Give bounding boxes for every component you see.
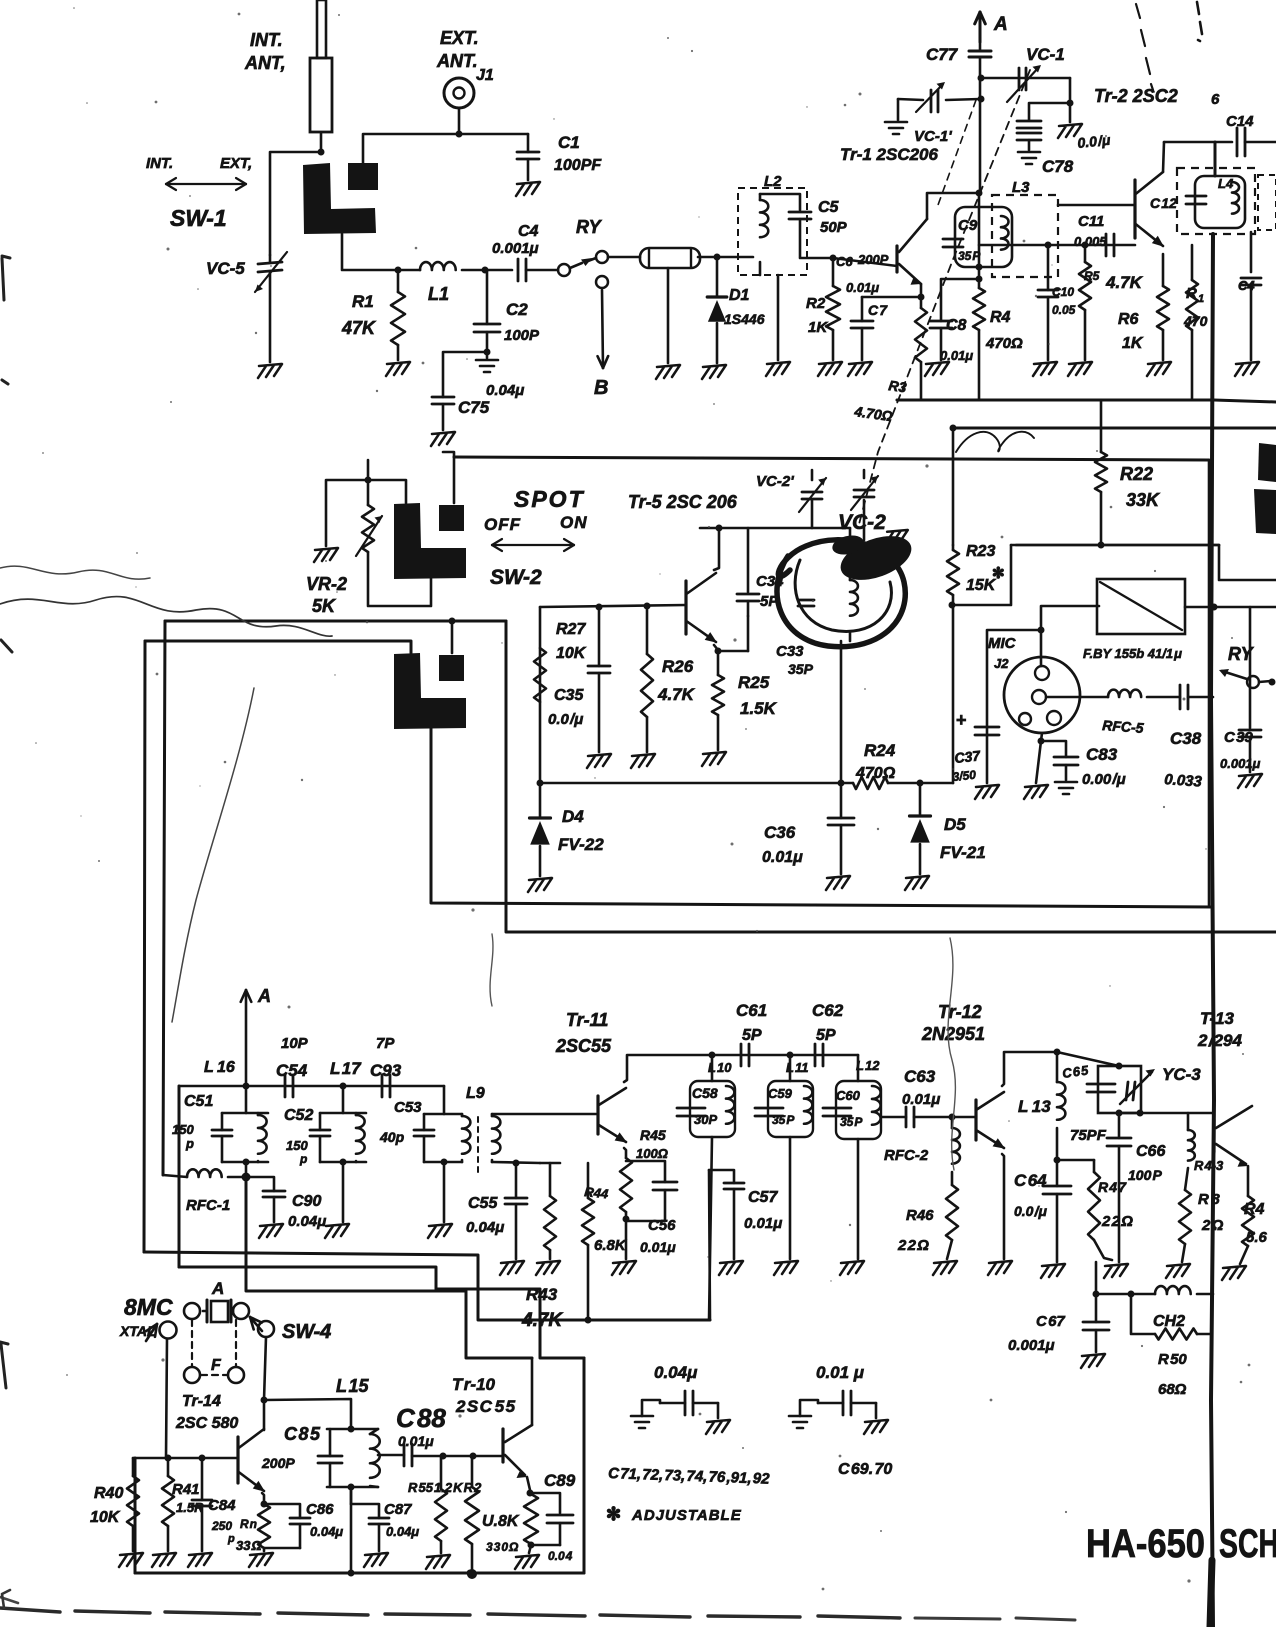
- svg-text:0.01μ: 0.01μ: [640, 1239, 676, 1255]
- svg-text:U.8K: U.8K: [482, 1513, 520, 1530]
- resistor R26: [646, 606, 649, 654]
- svg-text:J2: J2: [994, 656, 1009, 671]
- capacitor C57: [709, 1170, 734, 1183]
- svg-text:0.04μ: 0.04μ: [466, 1219, 504, 1236]
- ground R55: [426, 1555, 450, 1569]
- svg-text:C54: C54: [276, 1061, 308, 1080]
- capacitor C88: [403, 1444, 406, 1466]
- wire C88 to Tr-10 base: [412, 1455, 503, 1458]
- ground C57: [719, 1261, 743, 1275]
- svg-text:R 4 7: R 4 7: [1098, 1179, 1127, 1195]
- wire collector rail: [700, 527, 850, 530]
- svg-text:C86: C86: [306, 1501, 334, 1518]
- ground R1: [386, 362, 410, 376]
- wire to VC-1: [980, 77, 1070, 80]
- wire tank bottom down: [840, 641, 843, 783]
- wire R3 bus jog: [896, 399, 899, 402]
- svg-text:p: p: [299, 1152, 307, 1166]
- ground R2: [818, 362, 842, 376]
- svg-text:SW-1: SW-1: [170, 205, 227, 231]
- svg-text:100PF: 100PF: [554, 157, 602, 174]
- svg-text:C 39: C 39: [1224, 729, 1253, 746]
- svg-text:R22: R22: [1120, 464, 1153, 484]
- svg-text:C83: C83: [1086, 745, 1118, 764]
- svg-text:MIC: MIC: [988, 635, 1017, 652]
- svg-text:R6: R6: [1118, 311, 1139, 328]
- svg-text:R4: R4: [990, 309, 1011, 326]
- ground L2: [766, 362, 790, 376]
- relay contact mid: [1247, 676, 1259, 688]
- svg-text:OFF: OFF: [484, 515, 521, 534]
- resistor R23: [952, 545, 955, 550]
- tank C65/VC-3 box: [1098, 1066, 1141, 1113]
- transistor Tr-12: [974, 1100, 977, 1140]
- svg-text:R n: R n: [240, 1517, 257, 1531]
- svg-text:Tr-14: Tr-14: [182, 1393, 221, 1410]
- svg-text:C78: C78: [1042, 157, 1074, 176]
- svg-text:VC-1': VC-1': [914, 128, 952, 145]
- wire oscillator box right edge: [1208, 460, 1211, 905]
- svg-text:R45: R45: [640, 1127, 666, 1143]
- svg-text:8MC: 8MC: [124, 1294, 173, 1320]
- torn bottom edge: [0, 1608, 900, 1618]
- ground C8: [925, 362, 949, 376]
- ground C89: [515, 1555, 539, 1569]
- capacitor C36: [840, 783, 843, 818]
- svg-text:C87: C87: [384, 1501, 412, 1518]
- wire XTAL left to bias rail: [166, 1339, 167, 1458]
- svg-text:L3: L3: [1012, 179, 1030, 196]
- wire bias rail: [133, 1457, 238, 1460]
- wire emitter node: [714, 645, 718, 650]
- svg-text:L 13: L 13: [1018, 1097, 1051, 1116]
- tank 2 C52/L17: [342, 1086, 345, 1113]
- ground Tr-13: [1222, 1266, 1246, 1280]
- svg-text:33K: 33K: [1126, 490, 1161, 510]
- svg-text:C2: C2: [506, 300, 528, 319]
- oscillator tank C9 box: [955, 207, 1012, 267]
- svg-text:C59: C59: [768, 1086, 793, 1101]
- svg-text:470Ω: 470Ω: [985, 335, 1023, 352]
- capacitor C56: [626, 1161, 665, 1182]
- wire tank L10 bottom: [709, 1137, 712, 1320]
- wire R45 to ground: [625, 1219, 628, 1259]
- svg-text:C66: C66: [1136, 1143, 1165, 1160]
- resistor R47: [1093, 1160, 1096, 1172]
- svg-text:INT.: INT.: [250, 30, 283, 50]
- svg-text:Tr-12: Tr-12: [938, 1002, 982, 1022]
- ground C67: [1081, 1354, 1105, 1368]
- svg-text:VC-2: VC-2: [838, 511, 886, 534]
- inductor L4 winding: [1214, 142, 1217, 176]
- svg-text:2 /294: 2 /294: [1197, 1031, 1243, 1050]
- wire staircase bus 2 box bottom: [179, 1267, 584, 1358]
- capacitor C9: [943, 238, 963, 241]
- svg-text:A: A: [993, 14, 1008, 35]
- variable capacitor VC-5: [269, 255, 272, 262]
- wire L9 secondary top to Tr-11: [492, 1113, 596, 1116]
- ground C83 earth: [1055, 782, 1077, 794]
- svg-text:35 P: 35 P: [772, 1113, 795, 1127]
- svg-text:C11: C11: [1078, 213, 1104, 230]
- ground C10: [1033, 362, 1057, 376]
- svg-text:5P: 5P: [742, 1027, 762, 1044]
- resistor R49: [1242, 1196, 1254, 1246]
- svg-text:p: p: [185, 1136, 194, 1151]
- ground tank2: [325, 1224, 349, 1238]
- wire Tr-11 emitter: [624, 1148, 626, 1158]
- svg-text:0.005: 0.005: [1074, 234, 1107, 249]
- svg-text:C 64: C 64: [1014, 1171, 1047, 1190]
- transformer L4 dashed box: [1177, 168, 1255, 234]
- svg-text:C77: C77: [926, 45, 959, 64]
- tank L12/C60: [857, 1055, 860, 1081]
- svg-text:10P: 10P: [281, 1035, 309, 1052]
- ground R40: [119, 1553, 143, 1567]
- svg-text:1.5K: 1.5K: [740, 699, 778, 718]
- svg-text:C51: C51: [184, 1093, 213, 1110]
- capacitor C13: [1186, 195, 1206, 198]
- svg-text:0.04μ: 0.04μ: [310, 1524, 343, 1539]
- resistor R45: [620, 1158, 632, 1212]
- resistor R40: [132, 1458, 135, 1476]
- svg-text:INT.: INT.: [146, 155, 173, 172]
- svg-text:R40: R40: [94, 1485, 123, 1502]
- paper speckles: [415, 247, 418, 250]
- svg-text:R26: R26: [662, 657, 694, 676]
- ground filter: [656, 365, 680, 379]
- svg-text:100Ω: 100Ω: [636, 1146, 668, 1161]
- capacitor C93: [381, 1075, 384, 1097]
- wire SW-1 to R1 node: [342, 234, 398, 270]
- ground C84: [188, 1553, 212, 1567]
- svg-text:C56: C56: [648, 1217, 676, 1234]
- svg-text:VC-2': VC-2': [756, 473, 794, 490]
- capacitor C11: [1105, 234, 1108, 256]
- svg-text:C 12: C 12: [1150, 195, 1177, 211]
- svg-text:L1: L1: [428, 284, 449, 304]
- capacitor C54: [284, 1075, 287, 1097]
- wire Tr-12 collector bus: [1002, 1052, 1057, 1086]
- transistor Tr-14: [236, 1437, 239, 1483]
- capacitor C63: [905, 1107, 908, 1127]
- connector J1: [444, 78, 474, 108]
- svg-text:R44: R44: [584, 1184, 610, 1201]
- capacitor C75: [432, 396, 454, 399]
- svg-text:L 12: L 12: [856, 1058, 880, 1073]
- svg-text:C4: C4: [1238, 278, 1255, 293]
- relay coil box: [1097, 579, 1185, 634]
- wire R44 down: [587, 1245, 590, 1320]
- ground C35: [587, 754, 611, 768]
- ground C1: [516, 182, 540, 196]
- wire rail left leg: [539, 607, 542, 783]
- wire L12 to C63: [881, 1116, 906, 1119]
- wire base line Tr-13: [1119, 1112, 1213, 1115]
- svg-text:C4: C4: [518, 223, 539, 240]
- svg-text:EXT.: EXT.: [440, 28, 479, 48]
- wire bus corner to R23: [952, 545, 1011, 605]
- ground C78 earth: [1018, 152, 1040, 164]
- ground C90: [259, 1224, 283, 1238]
- svg-text:C36: C36: [764, 823, 796, 842]
- resistor R11: [1191, 245, 1194, 280]
- resistor R48: [1179, 1190, 1191, 1244]
- arrow node A lower: [245, 990, 248, 1086]
- svg-text:SW-4: SW-4: [282, 1321, 331, 1343]
- ground C64: [1041, 1264, 1065, 1278]
- tank L11/C59: [789, 1055, 792, 1081]
- svg-text:C1: C1: [558, 133, 580, 152]
- svg-text:YC-3: YC-3: [1162, 1065, 1201, 1084]
- svg-text:4.7K: 4.7K: [1105, 273, 1144, 292]
- svg-text:250: 250: [211, 1519, 232, 1533]
- ground C37: [975, 785, 999, 799]
- tank L10/C58: [711, 1055, 714, 1081]
- tank 1 C51/L16: [245, 1086, 248, 1113]
- svg-text:C89: C89: [544, 1471, 576, 1490]
- svg-text:C57: C57: [748, 1189, 778, 1206]
- inductor L15: [370, 1429, 378, 1434]
- svg-text:35 P: 35 P: [840, 1115, 863, 1129]
- wire to C75: [443, 352, 487, 397]
- transistor Tr-5: [684, 581, 687, 634]
- variable capacitor VC-2: [851, 476, 878, 510]
- capacitor C64: [1056, 1160, 1059, 1186]
- svg-text:R 4-3: R 4-3: [1194, 1158, 1224, 1173]
- svg-text:C55: C55: [468, 1195, 498, 1212]
- capacitor C87: [369, 1517, 389, 1520]
- svg-text:CH2: CH2: [1153, 1313, 1185, 1330]
- wire C55 node to resistors: [540, 1162, 560, 1165]
- resistor R1: [397, 270, 400, 292]
- svg-text:200P: 200P: [261, 1455, 295, 1471]
- svg-text:C 7: C 7: [868, 302, 888, 318]
- scribble crossed area: [956, 432, 1034, 452]
- transformer core dashed: [477, 1117, 479, 1172]
- capacitor C61: [740, 1044, 743, 1066]
- ground R42: [249, 1553, 273, 1567]
- wire VR-2 bottom to SW-2: [368, 552, 431, 606]
- resistor R43: [549, 1163, 552, 1196]
- resistor R4: [978, 279, 981, 288]
- wire A bus down to C9 tank: [979, 192, 980, 195]
- inductor L13: [1056, 1052, 1059, 1082]
- ground C2 earth: [476, 360, 498, 372]
- parallel RC C89: [524, 1494, 538, 1544]
- svg-text:0.04μ: 0.04μ: [654, 1363, 698, 1382]
- arrow to B: [602, 290, 603, 368]
- capacitor C2: [486, 270, 489, 324]
- capacitor C83: [1041, 741, 1066, 757]
- resistor R3 emitter: [920, 297, 923, 308]
- wire middle box right edge: [506, 621, 1276, 932]
- variable capacitor VC-1: [1018, 68, 1021, 90]
- wire oscillator bottom rail: [540, 782, 853, 785]
- wire R23 down to oscillator rail: [952, 595, 955, 783]
- ground D5: [905, 876, 929, 890]
- tank 3 C53/L9: [443, 1086, 446, 1114]
- relay contact B side: [596, 276, 608, 288]
- wire VR-2 node: [367, 460, 370, 480]
- capacitor C67: [1095, 1294, 1098, 1322]
- svg-text:R41: R41: [172, 1481, 200, 1498]
- inductor L3 winding: [1001, 216, 1008, 250]
- ground C55: [500, 1261, 524, 1275]
- left edge marks: [2, 256, 10, 384]
- svg-text:0.04μ: 0.04μ: [486, 382, 524, 399]
- resistor R5: [1084, 245, 1087, 262]
- svg-text:D4: D4: [562, 807, 584, 826]
- svg-text:0.01μ: 0.01μ: [902, 1091, 940, 1108]
- svg-text:5P: 5P: [816, 1027, 836, 1044]
- svg-text:B: B: [594, 377, 608, 399]
- transistor Tr-11: [596, 1096, 599, 1134]
- svg-text:R4: R4: [1244, 1201, 1265, 1218]
- inductor RFC-1: [163, 1175, 187, 1177]
- svg-text:R: R: [1186, 285, 1197, 302]
- capacitor C65: [1087, 1083, 1115, 1086]
- wire Tr-10 emitter to C89: [527, 1477, 530, 1490]
- svg-text:40p: 40p: [379, 1129, 405, 1145]
- wire emitter bus Tr-2: [979, 244, 1135, 247]
- wire Tr-11 collector: [624, 1055, 712, 1082]
- relay contact RY: [526, 269, 558, 272]
- wire long vertical left A: [163, 621, 165, 1175]
- svg-text:L9: L9: [466, 1085, 485, 1102]
- wire C61 bus: [712, 1054, 858, 1057]
- diode D1: [716, 257, 719, 296]
- svg-text:0.0 4: 0.0 4: [548, 1549, 573, 1563]
- resistor R55: [440, 1456, 443, 1489]
- capacitor C4: [517, 259, 520, 281]
- svg-text:10K: 10K: [90, 1509, 121, 1526]
- capacitor C90: [246, 1177, 274, 1191]
- svg-text:C53: C53: [394, 1099, 422, 1116]
- svg-text:10K: 10K: [556, 645, 587, 662]
- svg-text:RFC-2: RFC-2: [884, 1147, 929, 1164]
- svg-text:3 3 0 Ω: 3 3 0 Ω: [486, 1540, 519, 1554]
- wire tank bottom to C87: [350, 1487, 353, 1504]
- svg-text:5K: 5K: [312, 596, 337, 616]
- svg-text:C84: C84: [208, 1497, 236, 1514]
- svg-text:R5: R5: [1084, 269, 1100, 283]
- oscillator coil blob scribble: [777, 540, 905, 647]
- svg-text:A: A: [211, 1279, 224, 1298]
- svg-text:R 50: R 50: [1158, 1351, 1187, 1368]
- svg-text:0.01μ: 0.01μ: [762, 849, 803, 866]
- svg-text:2 Ω: 2 Ω: [1201, 1217, 1224, 1234]
- resistor R22: [1100, 400, 1103, 452]
- switch direction arrow SW-1: [166, 183, 246, 185]
- wire L9 secondary bottom: [492, 1162, 540, 1163]
- wire J1 to C1 and SW-1: [459, 108, 528, 134]
- svg-text:47K: 47K: [341, 318, 377, 338]
- resistor R27: [534, 648, 546, 702]
- svg-text:Tr-2 2SC2: Tr-2 2SC2: [1094, 86, 1178, 106]
- svg-text:5.6: 5.6: [1246, 1229, 1268, 1246]
- wire Tr-5 collector up: [714, 528, 719, 570]
- variable capacitor VC-3: [1126, 1082, 1128, 1100]
- svg-text:R24: R24: [864, 741, 896, 760]
- resistor R24: [853, 777, 888, 789]
- svg-text:2 2 Ω: 2 2 Ω: [1101, 1213, 1133, 1230]
- svg-text:ADJUSTABLE: ADJUSTABLE: [631, 1507, 742, 1524]
- fold line vertical: [1211, 234, 1214, 1627]
- variable capacitor VC-2prime: [799, 478, 826, 512]
- svg-text:C75: C75: [458, 398, 490, 417]
- svg-text:✻: ✻: [606, 1504, 621, 1524]
- tuned circuit L4 box: [1195, 176, 1245, 228]
- svg-text:Tr-11: Tr-11: [566, 1010, 608, 1030]
- wire to C78: [1029, 103, 1070, 120]
- ground C39: [1238, 774, 1262, 788]
- svg-text:C14: C14: [1226, 113, 1254, 130]
- svg-text:VC-1: VC-1: [1026, 45, 1065, 64]
- svg-text:ANT.: ANT.: [436, 51, 478, 71]
- resistor R6: [1157, 286, 1169, 330]
- svg-text:C 71, 72, 73, 74, 76 ,91, 92: C 71, 72, 73, 74, 76 ,91, 92: [608, 1465, 771, 1488]
- wire L1 to C4/RY: [462, 269, 485, 272]
- svg-text:150: 150: [172, 1122, 194, 1137]
- capacitor C39: [1249, 607, 1252, 728]
- svg-text:C63: C63: [904, 1067, 936, 1086]
- svg-text:C 8 5: C 8 5: [284, 1424, 321, 1444]
- svg-text:0.001μ: 0.001μ: [1220, 756, 1261, 771]
- resistor R46: [946, 1185, 958, 1240]
- wire Tr-12 emitter: [1002, 1154, 1004, 1259]
- capacitor C5: [789, 211, 811, 214]
- svg-text:6: 6: [1208, 91, 1220, 108]
- potentiometer VR-2: [367, 480, 370, 505]
- crystal switch SW-4: [160, 1322, 177, 1339]
- wire staircase bus 3 A-line: [246, 1177, 532, 1358]
- resistor R2: [832, 257, 835, 286]
- microphone jack J2: [1004, 657, 1080, 733]
- wire filter to L2: [698, 256, 753, 259]
- svg-text:C33: C33: [776, 643, 804, 660]
- svg-text:2SC 580: 2SC 580: [175, 1415, 238, 1432]
- svg-text:J1: J1: [476, 67, 494, 84]
- svg-text:0.01μ: 0.01μ: [744, 1215, 782, 1232]
- resistor R41: [167, 1458, 170, 1476]
- wire Tr-1 collector to C9 tank: [927, 193, 979, 219]
- svg-text:RFC-1: RFC-1: [186, 1197, 230, 1214]
- svg-text:R46: R46: [906, 1207, 934, 1224]
- ground Tr-12 emitter: [988, 1261, 1012, 1275]
- ground C7: [848, 362, 872, 376]
- wire C63 to Tr-12 base: [914, 1116, 976, 1119]
- svg-text:50P: 50P: [820, 219, 848, 236]
- svg-text:1K: 1K: [1122, 335, 1144, 352]
- svg-text:0.04μ: 0.04μ: [386, 1524, 419, 1539]
- inductor RFC-5: [1108, 690, 1141, 697]
- wire vertical C57 leg: [709, 1170, 710, 1320]
- svg-text:L4: L4: [1218, 176, 1234, 191]
- antenna INT rod: [317, 0, 326, 58]
- svg-text:FV-21: FV-21: [940, 843, 986, 862]
- svg-text:0.01μ: 0.01μ: [398, 1433, 434, 1449]
- wire A line through tank: [978, 193, 981, 279]
- svg-text:100 P: 100 P: [1128, 1167, 1163, 1183]
- inductor CH2: [1155, 1286, 1191, 1294]
- svg-text:L 10: L 10: [708, 1060, 732, 1075]
- svg-text:R27: R27: [556, 621, 586, 638]
- dashed gang line short: [938, 100, 976, 205]
- wire bottom rail Tr-10 section: [135, 1572, 584, 1575]
- svg-text:0.0 /μ: 0.0 /μ: [1014, 1203, 1048, 1219]
- wire middle box top: [165, 620, 506, 623]
